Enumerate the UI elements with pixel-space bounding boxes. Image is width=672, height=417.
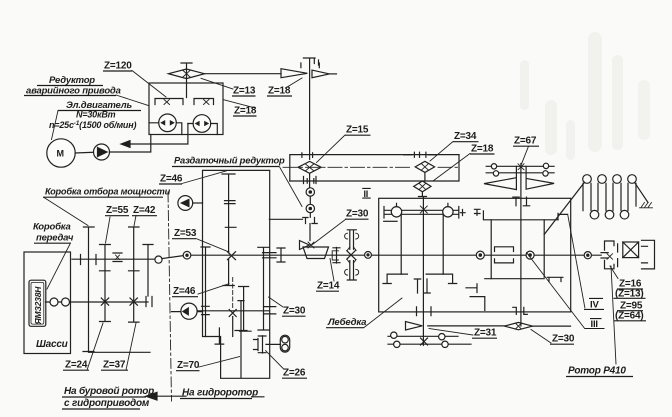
dog clutch on shaft I bbox=[303, 213, 317, 224]
svg-text:Z=46: Z=46 bbox=[160, 174, 183, 185]
svg-text:Z=26: Z=26 bbox=[283, 368, 306, 379]
clutch bar 2 bbox=[258, 336, 266, 353]
shaft II bearing ticks bbox=[302, 153, 314, 183]
PTO gear shaft 1 bbox=[83, 227, 94, 352]
hidden dashed shaft bbox=[232, 278, 234, 310]
shaft II centerline bbox=[283, 166, 410, 168]
bearing ticks at transfer right wall bbox=[263, 253, 277, 258]
drum drive horizontal lines bbox=[486, 166, 554, 173]
PTO upper shaft bbox=[72, 258, 155, 260]
svg-text:Z=13: Z=13 bbox=[233, 86, 256, 97]
wire arrow return line bbox=[129, 124, 188, 145]
bevel wheel trapezoid Z=14 bbox=[303, 247, 329, 259]
PTO gear shaft 2 bbox=[100, 245, 111, 322]
hydraulic motor on transfer bottom bbox=[181, 303, 197, 319]
PTO bottom rail bbox=[89, 351, 151, 353]
gear shafts hanging bbox=[401, 214, 443, 274]
svg-text:Z=30: Z=30 bbox=[283, 306, 306, 317]
bevel diamond D3 Z=18 bbox=[414, 181, 431, 192]
svg-text:Z=18: Z=18 bbox=[234, 106, 257, 117]
lower gear assembly bbox=[383, 274, 457, 283]
svg-text:(Z=64): (Z=64) bbox=[615, 311, 644, 322]
winch box bbox=[379, 198, 571, 312]
gear block on main shaft bbox=[495, 247, 514, 263]
svg-text:Z=46: Z=46 bbox=[173, 286, 196, 297]
shaft Z=67 vertical bbox=[520, 164, 522, 327]
crown block sheaves bbox=[583, 175, 592, 184]
bevel cone right Z=18 bbox=[312, 70, 329, 78]
transfer gear shaft a bbox=[222, 174, 235, 251]
svg-text:(Z=13): (Z=13) bbox=[615, 288, 644, 299]
dead line and anchor bbox=[635, 183, 648, 203]
bracket right lower bbox=[547, 277, 563, 281]
shaft II bottom line bbox=[290, 155, 459, 181]
bevel gear pair Z=120 bowtie bbox=[169, 69, 205, 79]
motor M circle bbox=[47, 139, 75, 167]
main shaft horizontal bbox=[191, 254, 602, 256]
svg-text:Z=34: Z=34 bbox=[454, 131, 477, 142]
svg-text:Лебедка: Лебедка bbox=[327, 317, 367, 328]
wire motor to coupling bbox=[75, 151, 93, 154]
synchro marks above D2 bbox=[404, 152, 437, 157]
transfer gear shaft a lower bbox=[223, 260, 234, 286]
bevel cone Z=67 right bbox=[526, 166, 554, 189]
svg-text:Z=15: Z=15 bbox=[346, 125, 369, 136]
svg-text:с гидроприводом: с гидроприводом bbox=[64, 398, 150, 409]
bottom bevel cone on V1 bbox=[406, 322, 423, 331]
C-hooks bbox=[254, 339, 259, 351]
svg-text:На гидроротор: На гидроротор bbox=[182, 388, 258, 399]
fast line to drum bbox=[544, 182, 584, 234]
cardan diagonal bbox=[162, 256, 184, 259]
dog clutch on Z=67 shaft bbox=[513, 197, 530, 206]
svg-text:Шасси: Шасси bbox=[36, 339, 68, 350]
rotary table crossed box bbox=[623, 242, 639, 258]
bevel diamond D1 on shaft I bbox=[298, 161, 321, 173]
shaft I vertical bbox=[309, 59, 311, 160]
pointer lines bbox=[132, 71, 166, 98]
coupling with pump triangle bbox=[94, 144, 110, 160]
svg-text:Z=42: Z=42 bbox=[133, 205, 156, 216]
svg-text:Z=70: Z=70 bbox=[177, 360, 200, 371]
transfer gear shaft b bbox=[239, 287, 252, 332]
svg-text:Z=31: Z=31 bbox=[474, 328, 497, 339]
bevel pair to main shaft bbox=[300, 241, 310, 250]
transfer lower shaft bbox=[195, 310, 269, 312]
traveling block sheaves bbox=[590, 210, 599, 219]
svg-text:Z=53: Z=53 bbox=[174, 228, 197, 239]
gear caps below upper shaft bbox=[100, 270, 140, 272]
wire stubs hyd motors bbox=[149, 123, 217, 135]
PTO gear shaft 3 bbox=[129, 227, 139, 322]
emergency drive reducer box bbox=[149, 83, 223, 135]
bevel cone Z=67 left bbox=[484, 166, 516, 189]
worm gear bracket left bbox=[155, 99, 183, 105]
transfer gearbox outline bbox=[203, 170, 270, 378]
winch right assembly shaft bbox=[475, 211, 568, 220]
gear coupling symbols near X bbox=[347, 230, 356, 250]
traveling lines bbox=[583, 183, 636, 210]
svg-text:М: М bbox=[57, 149, 64, 159]
svg-text:Z=30: Z=30 bbox=[346, 209, 369, 220]
small gear bar right of trapezoid bbox=[333, 248, 340, 264]
rotor right bracket bbox=[642, 240, 655, 269]
svg-text:Z=37: Z=37 bbox=[103, 360, 126, 371]
bevel cone left on shaft I bbox=[281, 69, 307, 78]
vertical shaft of bowtie bbox=[181, 63, 192, 98]
chassis output shaft bbox=[46, 301, 149, 303]
transfer gear shaft d bbox=[201, 247, 210, 337]
hydraulic motor on transfer top bbox=[178, 196, 193, 211]
svg-text:N=30кВт: N=30кВт bbox=[76, 110, 116, 120]
wire bowtie to right cone bbox=[204, 73, 281, 75]
transfer gear shaft e bbox=[215, 328, 224, 344]
svg-text:Z=55: Z=55 bbox=[106, 205, 129, 216]
svg-text:Z=18: Z=18 bbox=[268, 86, 291, 97]
gear mesh X below box on V1 bbox=[421, 338, 428, 345]
wire coupling to reducer box bbox=[110, 135, 151, 153]
svg-text:Z=24: Z=24 bbox=[65, 360, 88, 371]
bevel diamond D4 Z=30 bbox=[504, 322, 532, 329]
transfer gear shaft c bbox=[258, 247, 270, 330]
svg-text:передач: передач bbox=[36, 233, 74, 244]
chassis box bbox=[24, 252, 71, 354]
gear mesh X on main shaft center bbox=[347, 251, 355, 259]
bevel diamond D2 Z=34 bbox=[415, 161, 434, 172]
wire to chain drive bbox=[266, 343, 281, 345]
svg-text:Z=18: Z=18 bbox=[471, 144, 494, 155]
svg-text:II: II bbox=[364, 189, 369, 199]
V2 box-bottom bearing ticks bbox=[513, 307, 528, 314]
drum shaft assembly bbox=[384, 207, 459, 219]
clutch below D1 bbox=[304, 173, 317, 188]
engine plate bbox=[29, 280, 46, 326]
svg-text:На буровой ротор: На буровой ротор bbox=[64, 385, 154, 397]
rotor clutch bbox=[601, 253, 608, 258]
svg-text:Z=30: Z=30 bbox=[552, 334, 575, 345]
svg-text:Z=67: Z=67 bbox=[514, 136, 537, 147]
svg-text:Коробка отбора мощности: Коробка отбора мощности bbox=[45, 187, 171, 197]
svg-text:n=25c-1(1500 об/мин): n=25c-1(1500 об/мин) bbox=[49, 120, 136, 130]
svg-text:Z=14: Z=14 bbox=[317, 281, 340, 292]
universal joint circle bbox=[365, 252, 372, 259]
chain drive symbol bbox=[280, 335, 289, 352]
hydraulic motor circle right bbox=[193, 115, 211, 133]
winch shaft V1 vertical bbox=[422, 197, 424, 345]
bearing circles on shaft I bbox=[306, 188, 314, 196]
gear mesh X on main shaft at transfer bbox=[228, 252, 236, 260]
worm gear bracket right bbox=[194, 99, 214, 105]
sandreel shafts bbox=[388, 336, 471, 344]
svg-text:ЯМЗ238Н: ЯМЗ238Н bbox=[33, 286, 43, 326]
bearing circles main shaft bbox=[476, 251, 484, 259]
gear bar between box and bevel bbox=[277, 248, 285, 262]
svg-text:аварийного привода: аварийного привода bbox=[26, 86, 121, 97]
svg-text:Коробка: Коробка bbox=[33, 222, 71, 233]
PTO gear shaft 4 bbox=[143, 245, 153, 297]
svg-text:Z=120: Z=120 bbox=[104, 61, 132, 72]
shaft II top line bbox=[290, 155, 459, 181]
hydraulic motor circle left bbox=[159, 114, 177, 132]
svg-text:Раздаточный редуктор: Раздаточный редуктор bbox=[174, 155, 285, 166]
svg-text:Редуктор: Редуктор bbox=[49, 75, 95, 86]
winch lower-left brackets bbox=[466, 284, 477, 293]
wire bevel line bottom bbox=[428, 325, 505, 327]
svg-text:Ротор Р410: Ротор Р410 bbox=[568, 366, 626, 377]
bottom clutch bar bbox=[235, 301, 247, 378]
dash-dot boundary line bbox=[168, 192, 172, 401]
V1 box-bottom bearing ticks bbox=[417, 307, 432, 316]
bottom arrow to drilling rotor bbox=[152, 395, 186, 397]
wire transfer box to vertical shaft clutch bbox=[269, 218, 302, 220]
dog clutch on V1 bbox=[414, 279, 430, 293]
synchro small bbox=[113, 253, 122, 262]
